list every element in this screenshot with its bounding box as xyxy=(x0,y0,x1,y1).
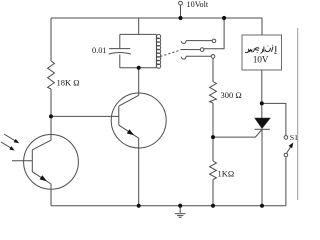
junction dot R3 on bottom rail xyxy=(211,204,215,208)
junction dot left base node xyxy=(49,114,53,118)
transistor Q2 base bar xyxy=(118,106,120,125)
capacitor C1 flat plate xyxy=(109,48,130,50)
terminal 10Volt circle xyxy=(179,1,183,5)
phototransistor Q1 emitter xyxy=(32,172,51,184)
wire left rail lower xyxy=(50,89,52,117)
ground bar 1 xyxy=(175,213,186,215)
switch S1 arrowhead xyxy=(289,143,294,149)
relay bottom contact hook xyxy=(181,56,186,59)
phototransistor Q1 base lead xyxy=(12,160,32,162)
SCR triangle xyxy=(255,118,271,129)
light arrow 2 head xyxy=(9,146,14,150)
junction dot SCR cathode on bottom rail xyxy=(260,204,264,208)
wire block feed from rail xyxy=(138,18,140,34)
alarm bell box xyxy=(242,35,282,70)
relay coil L1 loops xyxy=(157,34,161,68)
svg-text:0.01: 0.01 xyxy=(92,46,107,55)
switch S1 bottom terminal circle xyxy=(284,153,288,157)
phototransistor Q1 collector xyxy=(32,140,51,150)
resistor R1 18K zigzag xyxy=(48,61,55,89)
label jaras indhar (Arabic alarm bell) drawn strokes xyxy=(246,45,277,53)
transistor Q2 emitter arrowhead xyxy=(127,129,134,135)
relay bottom contact line xyxy=(186,55,211,57)
SCR gate wire xyxy=(213,130,261,137)
wire Q1 emitter drop xyxy=(50,184,52,206)
relay top contact terminal circle xyxy=(212,39,216,43)
phototransistor Q1 circle xyxy=(24,135,79,190)
switch S1 arm xyxy=(287,145,292,153)
junction dot relay pole on top rail xyxy=(222,16,226,20)
ground bar 2 xyxy=(177,215,183,217)
wire gate node to S1 branch xyxy=(262,103,286,135)
svg-text:10V: 10V xyxy=(253,56,269,66)
SCR cathode bar xyxy=(255,128,270,130)
svg-text:18K Ω: 18K Ω xyxy=(57,78,80,88)
wire SCR cathode drop xyxy=(261,129,263,205)
terminal 10Volt stub xyxy=(180,5,182,16)
wire R3 to bottom rail xyxy=(212,180,214,206)
junction dot Q2 emitter on bottom rail xyxy=(137,204,141,208)
capacitor C1 curved plate xyxy=(109,53,131,55)
wire base link Q1 to Q2 xyxy=(51,115,119,117)
relay coil L1 core line xyxy=(155,34,157,67)
relay pole terminal circle xyxy=(200,48,204,52)
capacitor C1 top lead xyxy=(119,34,121,48)
border line right edge xyxy=(297,28,299,200)
relay top contact line xyxy=(186,40,212,42)
wire S1 drop to rail xyxy=(285,157,287,206)
capacitor C1 bottom lead xyxy=(119,55,121,68)
light arrow 1 head xyxy=(14,139,20,143)
transistor Q2 collector xyxy=(119,95,139,106)
light arrow 1 line xyxy=(4,134,16,141)
phototransistor Q1 emitter arrowhead xyxy=(40,175,47,181)
wire top rail xyxy=(51,17,262,19)
wire Q2 emitter drop xyxy=(138,138,140,206)
wire collector drop to Q2 xyxy=(138,68,140,96)
ground dot xyxy=(178,204,182,208)
wire block bottom xyxy=(120,67,157,69)
wire box to SCR anode xyxy=(261,70,263,118)
wire Q1 collector riser xyxy=(50,116,52,140)
svg-text:10Volt: 10Volt xyxy=(187,0,209,9)
wire bottom contact drop xyxy=(212,58,214,81)
relay bottom contact terminal circle xyxy=(211,55,215,59)
transistor Q2 circle xyxy=(111,93,166,148)
svg-text:1KΩ: 1KΩ xyxy=(218,169,235,179)
relay top contact hook xyxy=(181,41,186,44)
relay pole wire to rail xyxy=(204,18,224,49)
ground bar 3 xyxy=(179,216,182,218)
wire R2 to gate node xyxy=(212,103,214,161)
wire bottom rail xyxy=(51,205,286,207)
wire left rail upper xyxy=(50,18,52,61)
wire block top xyxy=(120,33,157,35)
transistor Q2 emitter xyxy=(119,125,139,138)
light arrow 2 line xyxy=(1,142,12,148)
ground stub xyxy=(179,206,181,214)
switch S1 top terminal circle xyxy=(284,136,288,140)
svg-text:300 Ω: 300 Ω xyxy=(221,90,242,100)
wire top rail right corner drop xyxy=(261,18,263,35)
junction dot gate node xyxy=(211,135,215,139)
phototransistor Q1 base bar xyxy=(31,150,33,172)
resistor R2 300 zigzag xyxy=(210,82,217,104)
svg-text:S1: S1 xyxy=(290,133,298,142)
junction dot terminal on top rail xyxy=(178,16,182,20)
junction dot SCR anode node xyxy=(260,101,264,105)
relay pole blade xyxy=(181,49,201,51)
resistor R3 1K zigzag xyxy=(210,161,217,180)
relay armature dashed link xyxy=(160,50,180,57)
junction dot block bottom xyxy=(137,66,141,70)
